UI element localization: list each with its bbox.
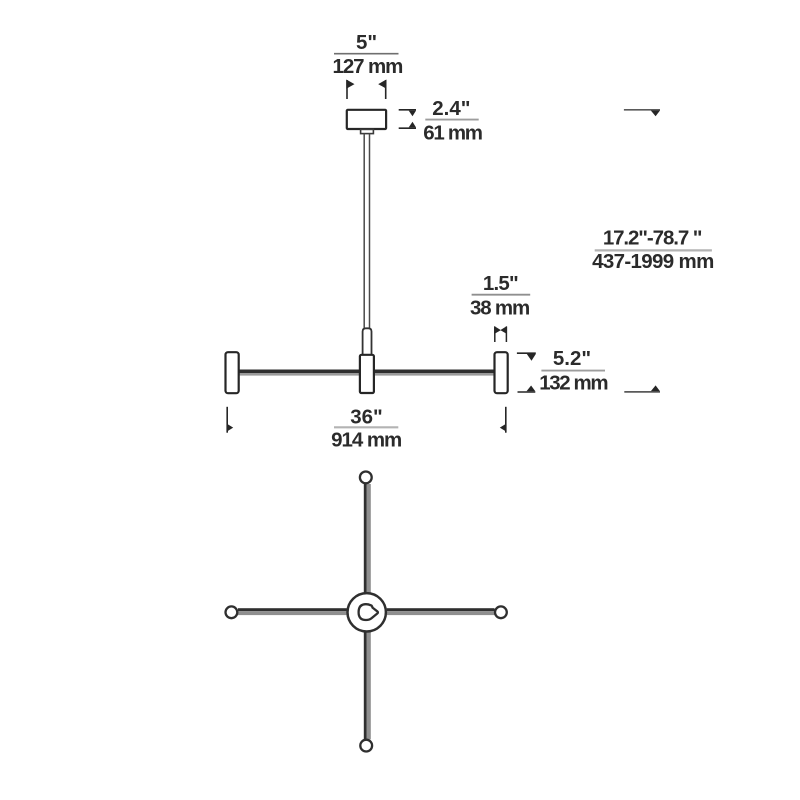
canopy collar xyxy=(361,129,374,133)
dimension label 1.5in xyxy=(470,272,530,320)
plan view arm down shadow xyxy=(367,632,371,739)
canopy width arrow right xyxy=(378,80,386,100)
upper tube above hub xyxy=(363,328,372,355)
plan view arm left shadow xyxy=(238,611,347,615)
cap width arrows (1.5in) xyxy=(494,326,507,342)
svg-text:61 mm: 61 mm xyxy=(423,122,482,145)
plan view arm up shadow xyxy=(367,484,371,593)
horizontal bar shadow xyxy=(238,373,496,376)
left end cap xyxy=(226,352,239,393)
center hub xyxy=(360,355,374,393)
dimension label 2.4in xyxy=(423,97,482,145)
right end cap xyxy=(495,352,508,393)
dimension label 5in xyxy=(333,31,403,78)
plan view arm down dark xyxy=(364,632,367,739)
svg-text:914 mm: 914 mm xyxy=(331,428,401,451)
plan view arm right dark xyxy=(387,608,495,611)
svg-text:17.2"-78.7 ": 17.2"-78.7 " xyxy=(603,227,702,250)
plan view lamp symbol xyxy=(359,604,378,620)
svg-text:2.4": 2.4" xyxy=(432,97,470,120)
svg-text:1.5": 1.5" xyxy=(483,272,518,295)
plan view end circle top xyxy=(360,472,372,484)
plan view arm left dark xyxy=(238,608,347,611)
dimension label 17.2-78.7in xyxy=(592,227,714,274)
svg-text:36": 36" xyxy=(350,405,383,428)
svg-text:5": 5" xyxy=(356,31,377,54)
plan view end circle bottom xyxy=(360,740,372,752)
plan view arm right shadow xyxy=(387,611,495,615)
horizontal bar dark xyxy=(238,370,496,374)
svg-text:5.2": 5.2" xyxy=(553,347,591,370)
plan view end circle left xyxy=(226,606,238,618)
stem (double line) xyxy=(364,134,369,330)
overall height bottom mark xyxy=(624,385,660,392)
dimension 2.4in marks xyxy=(399,110,416,128)
dimension label 36in xyxy=(331,405,401,451)
canopy width arrow left xyxy=(346,80,354,100)
cap height marks (5.2in) xyxy=(517,353,536,392)
svg-text:127 mm: 127 mm xyxy=(333,55,403,78)
dimension label 5.2in xyxy=(539,347,607,394)
plan view center circle xyxy=(348,593,386,631)
bar width arrow right (36in) xyxy=(500,407,507,433)
plan view end circle right xyxy=(495,606,507,618)
canopy xyxy=(347,110,386,129)
svg-text:437-1999 mm: 437-1999 mm xyxy=(592,250,714,273)
svg-text:132 mm: 132 mm xyxy=(539,371,607,394)
plan view arm up dark xyxy=(364,484,367,593)
overall height top mark xyxy=(624,110,660,117)
bar width arrow left (36in) xyxy=(227,407,234,433)
svg-text:38 mm: 38 mm xyxy=(470,296,529,319)
